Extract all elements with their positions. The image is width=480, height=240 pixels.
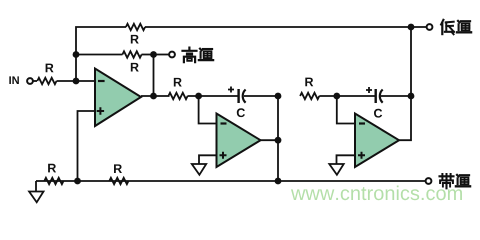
wire: U1 non-inverting input to divider node bbox=[78, 111, 96, 181]
label + (C1 polarity) bbox=[228, 87, 234, 93]
wire: U3 output up to low-pass rail bbox=[399, 27, 411, 140]
wire: top rail right segment to low-pass terminal bbox=[145, 26, 427, 28]
wire: U2 output vertical rail bbox=[277, 96, 279, 181]
op-amp U1 bbox=[95, 69, 141, 127]
resistor R1 (top feedback) bbox=[126, 24, 145, 30]
wire: U3 non-inverting to ground bbox=[337, 155, 356, 164]
node: U2 output tee bbox=[275, 137, 282, 144]
label IN bbox=[9, 76, 19, 84]
wire: band-pass bottom rail bbox=[36, 180, 426, 182]
resistor R2 (high-pass feedback) bbox=[122, 51, 141, 57]
wire: U1 output to R4 bbox=[141, 95, 170, 97]
terminal: input circle bbox=[27, 78, 33, 84]
terminal: low-pass output circle bbox=[427, 24, 433, 30]
wire: R5 to C2 bbox=[319, 95, 375, 97]
ground (divider) bbox=[35, 181, 37, 192]
label R2 bbox=[131, 63, 139, 72]
node: U1 output / high-pass vertical bbox=[150, 93, 157, 100]
node: U3 inverting branch junction bbox=[333, 93, 340, 100]
resistor R5 (integrator 2) bbox=[300, 93, 319, 99]
ground (U2) bbox=[192, 164, 206, 175]
node: inverting input net on left rail bbox=[73, 51, 80, 58]
label C2 bbox=[374, 109, 382, 118]
capacitor C1 bbox=[239, 89, 246, 103]
wire: C2 to U3 output vertical bbox=[381, 95, 411, 97]
node: high-pass junction bbox=[150, 51, 157, 58]
wire: vertical from high-pass junction down to U1 output bbox=[153, 55, 155, 97]
op-amp U3 bbox=[355, 114, 399, 168]
wire: input to R3 bbox=[33, 80, 37, 82]
node: U1 inverting input junction bbox=[73, 78, 80, 85]
label R1 bbox=[131, 35, 139, 44]
node: rail to band-pass wire bbox=[275, 178, 282, 185]
node: C1 right / rail top bbox=[275, 93, 282, 100]
label R7 bbox=[114, 164, 122, 173]
label C1 bbox=[237, 108, 245, 117]
wire: U2 non-inverting to ground bbox=[199, 155, 217, 164]
node: U2 inverting branch junction bbox=[195, 93, 202, 100]
wire: R4 to C1 bbox=[188, 95, 239, 97]
label 高通 (high-pass) bbox=[183, 48, 214, 63]
node: C2 right / low-pass rail bbox=[408, 93, 415, 100]
label R4 bbox=[174, 78, 182, 87]
capacitor C2 bbox=[376, 89, 383, 103]
terminal: high-pass output circle bbox=[169, 52, 175, 58]
wire: down-elbow into U2 inverting input bbox=[199, 96, 217, 124]
label R5 bbox=[305, 78, 313, 87]
node: divider tap to U1 non-inverting bbox=[74, 178, 81, 185]
op-amp U2 bbox=[217, 114, 261, 168]
terminal: band-pass output circle bbox=[426, 178, 432, 184]
label 带通 (band-pass) bbox=[440, 174, 471, 188]
wire: R2 to U1 output vertical junction bbox=[142, 54, 154, 56]
label 低通 (low-pass) bbox=[441, 20, 471, 35]
wire: high-pass row from inverting node bbox=[76, 54, 123, 56]
label R6 bbox=[48, 164, 56, 173]
wire: down-elbow into U3 inverting input bbox=[337, 96, 355, 124]
wire: C1 to U2 output vertical bbox=[244, 95, 278, 97]
node: top rail / U3 output junction bbox=[408, 24, 415, 31]
ground (U3) bbox=[329, 164, 343, 175]
watermark www.cntronics.com bbox=[291, 186, 462, 201]
resistor R4 (integrator 1) bbox=[168, 93, 187, 99]
wire: U2 output to vertical rail bbox=[261, 139, 279, 141]
wire: R3 to U1 inverting input bbox=[57, 80, 96, 82]
wire: stub to high-pass terminal bbox=[154, 54, 170, 56]
label R3 bbox=[46, 64, 54, 73]
resistor R6 (divider left) bbox=[44, 178, 63, 184]
wire: low-pass feedback top rail left segment bbox=[76, 27, 126, 81]
label + (C2 polarity) bbox=[366, 87, 372, 93]
resistor R7 (divider right) bbox=[109, 178, 128, 184]
resistor R3 (input) bbox=[37, 78, 56, 84]
